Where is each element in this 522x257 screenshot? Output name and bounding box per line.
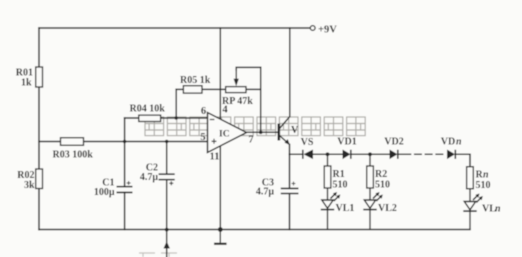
wire inverting line (R04 to pin6) [125, 117, 208, 119]
svg-text:510: 510 [476, 180, 491, 191]
svg-text:n: n [456, 137, 462, 148]
potentiometer RP [222, 70, 253, 107]
node R05 pin6 junction [175, 116, 178, 119]
wire left vertical [38, 28, 40, 230]
pin 6 label [201, 106, 206, 117]
wire collector vertical [289, 28, 291, 116]
svg-text:6: 6 [201, 106, 206, 117]
node RP output junction [259, 131, 263, 135]
wire emitter vertical [289, 145, 291, 155]
svg-text:VD2: VD2 [384, 137, 403, 148]
svg-text:11: 11 [210, 152, 220, 163]
svg-text:3k: 3k [24, 180, 35, 191]
svg-text:R03 100k: R03 100k [53, 150, 94, 161]
capacitor C1 [94, 178, 133, 199]
node input-bottom junction [165, 228, 169, 232]
wire input arrow stem [166, 230, 168, 257]
svg-text:V: V [291, 125, 299, 136]
+9V terminal [310, 25, 337, 36]
resistor R03 [53, 138, 94, 161]
svg-text:100μ: 100μ [94, 187, 115, 198]
svg-text:4.7μ: 4.7μ [256, 187, 275, 198]
resistor R04 [130, 104, 166, 122]
pin 7 label [248, 135, 253, 146]
resistor R01 [16, 67, 43, 89]
wire emitter node to VS and diode chain [290, 153, 405, 155]
resistor R1 [324, 154, 347, 229]
svg-text:n: n [495, 204, 501, 215]
diode VD1 [337, 137, 356, 160]
svg-text:510: 510 [333, 180, 348, 191]
svg-text:VL1: VL1 [336, 203, 355, 214]
svg-text:1k: 1k [21, 78, 32, 89]
svg-text:IC: IC [219, 130, 230, 140]
svg-text:R05 1k: R05 1k [180, 75, 211, 86]
wire noninverting line (R03 to pin5) [39, 141, 208, 143]
node R04/R03 junction [123, 140, 126, 143]
wire R05-RP feedback row [176, 88, 261, 90]
wire RP wiper loop [236, 67, 261, 70]
svg-text:4: 4 [222, 105, 228, 116]
wire pin11 to ground rail [219, 146, 221, 230]
svg-text:+9V: +9V [318, 25, 337, 36]
diode VDn [441, 137, 462, 160]
wire VDn to Rn corner [456, 154, 470, 166]
node pin11-ground junction [218, 227, 223, 232]
pin 11 label [210, 152, 220, 163]
input arrow [164, 241, 170, 248]
watermark row (gray CJK placeholder glyphs) [145, 117, 365, 136]
wire op-amp output to base [247, 131, 279, 133]
svg-text:R1: R1 [333, 169, 345, 180]
resistor R2 [367, 154, 390, 229]
pin 5 label [200, 132, 205, 143]
svg-text:VD: VD [441, 137, 455, 148]
svg-text:n: n [483, 170, 489, 181]
LED VL2 [363, 192, 397, 214]
diode VS [301, 137, 314, 159]
wire C3 branch [289, 154, 291, 229]
ground [214, 230, 227, 244]
wire dashed section before VDn [404, 153, 444, 155]
node R2 chain junction [368, 152, 372, 156]
pin 4 label [222, 105, 228, 116]
resistor R05 [180, 75, 211, 93]
node R1 chain junction [326, 152, 330, 156]
wire C2/input branch vertical [166, 142, 168, 230]
LED VL1 [321, 192, 355, 214]
transistor V [279, 117, 299, 146]
capacitor C2 [140, 163, 175, 186]
svg-text:4.7μ: 4.7μ [140, 172, 159, 183]
svg-text:5: 5 [200, 132, 205, 143]
wire top +9V rail [39, 27, 310, 29]
svg-text:VL2: VL2 [378, 203, 397, 214]
wire R05 drop to pin6 [175, 89, 177, 118]
capacitor C3 [256, 178, 299, 198]
diode VD2 [384, 137, 403, 160]
resistor R02 [17, 169, 42, 191]
svg-text:VD1: VD1 [337, 137, 356, 148]
watermark bottom partial [139, 253, 177, 257]
resistor Rn [467, 167, 491, 230]
svg-text:R04 10k: R04 10k [130, 104, 166, 115]
wire bottom rail [39, 229, 470, 231]
svg-text:R2: R2 [375, 169, 387, 180]
LED VLn [463, 194, 501, 215]
op-amp U (IC) [208, 113, 247, 153]
wire pin4 supply vertical [219, 28, 221, 119]
wire R04/C1 branch vertical [124, 118, 126, 230]
wire RP right down to output [260, 67, 262, 132]
svg-text:VS: VS [301, 137, 314, 148]
svg-text:510: 510 [375, 180, 390, 191]
svg-text:7: 7 [248, 135, 253, 146]
node C2 input junction [165, 140, 168, 143]
